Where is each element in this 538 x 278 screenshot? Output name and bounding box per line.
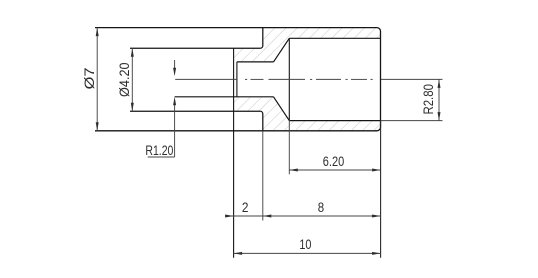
cone-to-bore transition edge (circle seen edge-on) xyxy=(288,38,290,120)
part outline: step face lower segment with fillet R1.20 xyxy=(260,111,263,131)
inner bore R2.80 bottom edge xyxy=(289,120,380,122)
centerline (dash-dot axis) xyxy=(175,78,442,80)
part outline: left face of Ø4.20 cylinder (extends down as extension line) xyxy=(233,48,235,258)
dimension Ø7: dimension line xyxy=(96,28,98,131)
inner bore R2.80 top edge xyxy=(289,37,380,39)
dimension Ø4.20: dimension line xyxy=(131,48,133,111)
svg-text:2: 2 xyxy=(242,199,249,215)
svg-text:6.20: 6.20 xyxy=(323,153,345,169)
part outline: step face upper segment with fillet R1.20 xyxy=(260,28,263,49)
svg-text:Ø7: Ø7 xyxy=(81,67,97,89)
inner bore: neck hole Ø2.40 bottom edge + R1.20 extension line xyxy=(175,96,274,98)
svg-text:R2.80: R2.80 xyxy=(420,84,436,115)
part outline: small cylinder Ø4.20 bottom edge + extension line to dim xyxy=(130,110,260,112)
dimension 6.20: dimension line xyxy=(289,169,380,171)
dimension 6.20: extension line at cone end xyxy=(288,121,290,175)
dimension R1.20: upper arrow pointing down to centerline xyxy=(174,60,176,69)
svg-text:8: 8 xyxy=(318,199,325,215)
part outline: right face with rounded corners xyxy=(377,28,381,131)
dimension 2 and 8: shared dimension line xyxy=(226,215,381,217)
dimension 2/8: arrow pointing left at step xyxy=(263,215,272,218)
extension line at right face going down xyxy=(380,121,382,258)
section hatch (material cut by section plane) xyxy=(234,28,381,131)
part outline: big cylinder Ø7 top edge + extension line to dim xyxy=(95,27,377,29)
neck hole entry edge (circle seen edge-on) xyxy=(236,62,238,97)
svg-text:10: 10 xyxy=(299,236,311,252)
extension line at step (x=263) xyxy=(262,131,264,221)
dimension 2: outside arrow pointing right at left face xyxy=(225,215,234,218)
cone lower edge xyxy=(274,97,290,121)
inner bore: neck hole Ø2.40 top edge xyxy=(237,61,274,63)
part outline: big cylinder Ø7 bottom edge + extension line to dim xyxy=(95,130,377,132)
dimension 8: arrow pointing right at right face xyxy=(372,215,381,218)
dimension R2.80: dimension line xyxy=(438,79,440,120)
cone upper edge xyxy=(274,38,290,62)
part outline: small cylinder Ø4.20 top edge + extension line to dim xyxy=(130,47,260,49)
svg-text:Ø4.20: Ø4.20 xyxy=(116,62,132,97)
dimension R2.80: extension line (bore bottom) xyxy=(381,120,443,122)
dimension R1.20: lower arrow pointing up to neck edge, leader to label xyxy=(173,97,176,106)
dimension 10: dimension line xyxy=(234,252,381,254)
svg-text:R1.20: R1.20 xyxy=(145,142,173,158)
